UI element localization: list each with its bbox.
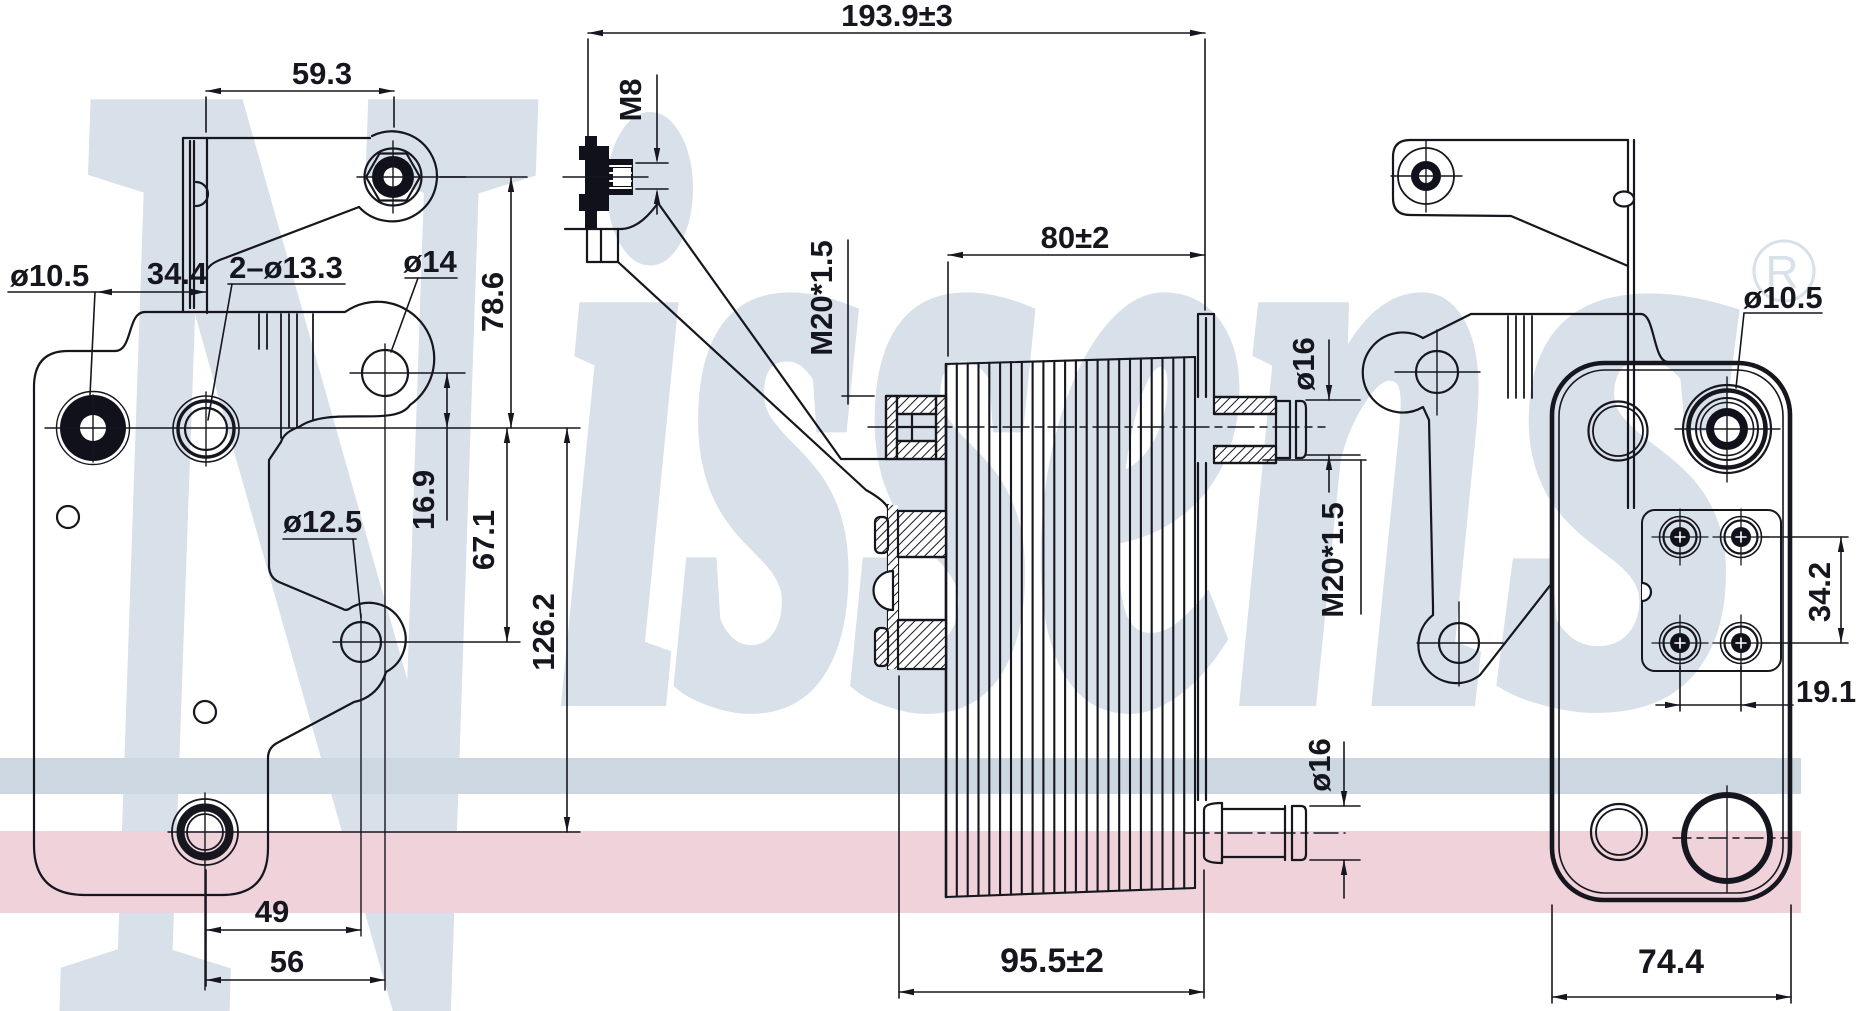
bolts panel <box>1642 510 1781 671</box>
svg-text:19.1: 19.1 <box>1796 674 1856 709</box>
svg-text:ø10.5: ø10.5 <box>10 258 89 293</box>
bottom big circle <box>1684 795 1770 881</box>
arm upper edge <box>622 203 886 459</box>
M8 bolt (black) <box>579 136 633 228</box>
svg-text:34.4: 34.4 <box>147 256 208 291</box>
bracket top edge <box>183 137 370 139</box>
bracket strip <box>182 138 184 311</box>
bend lines right view <box>1508 316 1532 398</box>
plate strip (section) <box>888 505 898 669</box>
svg-text:74.4: 74.4 <box>1638 943 1704 981</box>
(R) symbol <box>1754 241 1814 301</box>
bottom hatched block <box>898 620 946 669</box>
left port <box>1589 402 1648 461</box>
svg-text:M20*1.5: M20*1.5 <box>1315 502 1350 617</box>
bracket below bolt <box>565 228 622 230</box>
right fitting threaded <box>1214 397 1306 463</box>
svg-text:M20*1.5: M20*1.5 <box>804 240 839 355</box>
svg-text:126.2: 126.2 <box>526 593 561 671</box>
hex nut <box>366 154 420 201</box>
svg-text:67.1: 67.1 <box>466 510 501 570</box>
bracket hole <box>1398 148 1454 204</box>
hole o12.5 <box>341 622 381 662</box>
bracket diagonal <box>207 207 359 270</box>
nut washer circle <box>365 149 422 206</box>
svg-text:59.3: 59.3 <box>292 56 352 91</box>
pink band <box>0 831 1801 913</box>
arm bracket lower lobe <box>1418 583 1552 683</box>
nut bore (black) <box>372 156 414 198</box>
svg-text:ø12.5: ø12.5 <box>283 504 362 539</box>
top bracket <box>1393 140 1628 266</box>
svg-text:ø10.5: ø10.5 <box>1743 280 1822 315</box>
svg-text:34.2: 34.2 <box>1802 562 1837 622</box>
bracket boss arc <box>359 131 437 221</box>
plate outline <box>34 302 434 895</box>
big port top right <box>1683 385 1771 473</box>
bottom hole rings <box>172 799 238 865</box>
lower-left sectioned block <box>874 505 947 669</box>
top right flange <box>1198 314 1214 800</box>
svg-text:ø16: ø16 <box>1302 738 1337 791</box>
svg-text:56: 56 <box>270 944 304 979</box>
arm bracket <box>1363 333 1433 616</box>
bottom stub <box>1204 803 1306 863</box>
hole o14 <box>362 350 408 396</box>
arm lower edge <box>618 262 888 508</box>
left tabs <box>875 517 888 553</box>
svg-text:M8: M8 <box>613 78 648 121</box>
svg-text:95.5±2: 95.5±2 <box>1000 942 1104 980</box>
svg-text:49: 49 <box>255 894 289 929</box>
svg-text:2–ø13.3: 2–ø13.3 <box>229 250 343 285</box>
arm bracket upper hole <box>1416 351 1458 393</box>
svg-text:issen: issen <box>560 0 1493 865</box>
small hole lower <box>194 701 216 723</box>
big plate inner line <box>1559 370 1783 893</box>
small hole upper <box>57 506 79 528</box>
middle lines <box>898 511 946 669</box>
hole 2-o13.3 <box>173 396 239 462</box>
dashed centerline <box>868 426 1325 428</box>
blue band <box>0 758 1801 794</box>
tab slot <box>1614 192 1634 207</box>
big plate (face) outer <box>1552 363 1790 900</box>
svg-text:ø16: ø16 <box>1286 337 1321 390</box>
fin stack <box>946 357 1195 897</box>
svg-text:16.9: 16.9 <box>406 470 441 530</box>
svg-text:ø14: ø14 <box>403 244 457 279</box>
strip half-circle detail <box>196 182 208 206</box>
top hatched block <box>898 511 946 557</box>
centerlines <box>45 344 580 990</box>
bend lines <box>259 314 313 438</box>
svg-text:78.6: 78.6 <box>475 272 510 332</box>
left fitting (threaded, at main centerline) <box>886 396 946 459</box>
bottom small circle <box>1591 804 1647 860</box>
hole o10.5 (black ring) <box>57 392 130 465</box>
tab strip <box>1627 140 1629 508</box>
svg-text:80±2: 80±2 <box>1041 220 1110 255</box>
half circle notch <box>874 571 894 610</box>
svg-text:193.9±3: 193.9±3 <box>841 0 953 33</box>
bolts 2x2 <box>1652 509 1708 565</box>
arm bracket lower hole <box>1439 623 1479 663</box>
